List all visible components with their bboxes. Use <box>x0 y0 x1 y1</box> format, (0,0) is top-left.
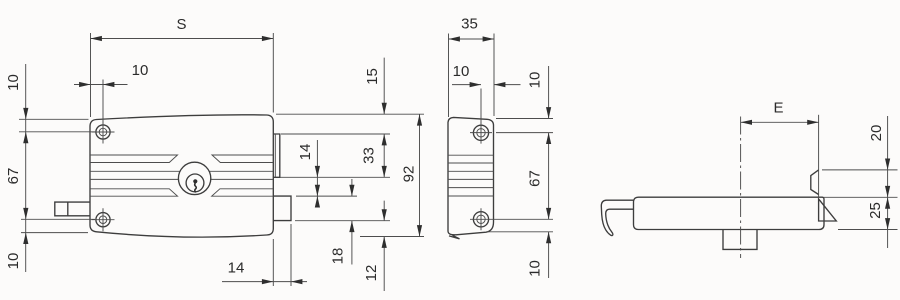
svg-text:10: 10 <box>527 260 544 277</box>
svg-text:10: 10 <box>5 74 22 91</box>
svg-text:35: 35 <box>461 16 478 33</box>
svg-text:92: 92 <box>401 166 418 183</box>
svg-text:20: 20 <box>868 125 885 142</box>
svg-text:33: 33 <box>361 147 378 164</box>
svg-text:67: 67 <box>526 170 543 187</box>
svg-text:67: 67 <box>5 168 22 185</box>
svg-text:25: 25 <box>867 202 884 219</box>
svg-text:10: 10 <box>453 63 470 80</box>
svg-text:14: 14 <box>297 144 314 161</box>
svg-text:S: S <box>176 16 186 33</box>
svg-text:14: 14 <box>228 260 245 277</box>
svg-text:15: 15 <box>364 68 381 85</box>
svg-text:12: 12 <box>363 265 380 282</box>
svg-text:10: 10 <box>5 253 22 270</box>
svg-text:18: 18 <box>330 248 347 265</box>
svg-text:10: 10 <box>132 62 149 79</box>
svg-text:10: 10 <box>527 72 544 89</box>
svg-text:E: E <box>773 100 783 117</box>
